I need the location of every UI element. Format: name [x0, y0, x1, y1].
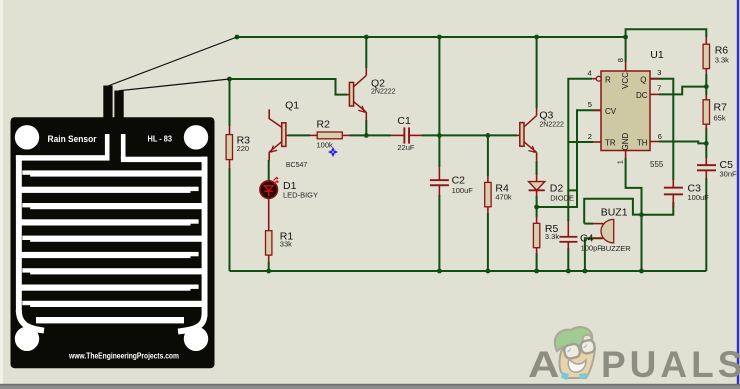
LED D1 [260, 160, 318, 199]
wire R4 drop [487, 213, 489, 271]
sensor trace pin2 lead-in [121, 134, 126, 159]
sensor bottom bar [36, 317, 184, 323]
svg-text:100uF: 100uF [688, 193, 710, 202]
sensor finger 1 [22, 170, 30, 174]
sensor corner hole top-right [184, 125, 208, 149]
wire left rail R3 top [229, 79, 231, 126]
wire top rail riser to R6 feed [626, 29, 707, 37]
svg-text:www.TheEngineeringProjects.com: www.TheEngineeringProjects.com [68, 352, 179, 361]
wire top rail [237, 36, 626, 38]
svg-text:C1: C1 [397, 115, 411, 127]
capacitor C2 [430, 167, 473, 196]
svg-text:2: 2 [588, 132, 592, 141]
wire left rail R3 bottom to ground rail [229, 168, 231, 271]
svg-text:33k: 33k [280, 240, 292, 249]
svg-text:5: 5 [588, 100, 592, 109]
resistor R7 [703, 95, 727, 129]
sensor board [11, 117, 215, 368]
wire buzzer top feed [584, 199, 641, 224]
sensor trace pin1 lead-in [105, 134, 110, 158]
wire sensor pin2 to R3 node [119, 79, 230, 91]
wire Q output to C3 [650, 79, 673, 180]
wire C2 riser [438, 37, 440, 167]
svg-text:Q1: Q1 [285, 99, 299, 111]
sensor finger 7 [22, 268, 30, 272]
svg-text:HL - 83: HL - 83 [148, 135, 173, 144]
svg-text:220: 220 [237, 144, 250, 153]
svg-text:Q3: Q3 [539, 110, 553, 122]
wire R5 to rail [536, 253, 538, 271]
svg-text:30nF: 30nF [720, 170, 738, 179]
svg-text:100uF: 100uF [452, 186, 474, 195]
sensor finger 2 [21, 187, 191, 193]
wire Q3 emitter to D2 [536, 161, 538, 175]
wire C3 bottom to GND chain [642, 202, 674, 215]
wire VCC riser [625, 37, 627, 62]
svg-text:100pF: 100pF [581, 244, 603, 253]
svg-text:LED-BIGY: LED-BIGY [283, 190, 318, 199]
sensor finger 8 [21, 285, 191, 291]
wire main row Q1 base to R2 [288, 134, 310, 136]
node sensor branch [227, 77, 232, 82]
sensor corner hole bottom-left [15, 327, 39, 351]
svg-text:TR: TR [605, 139, 616, 148]
node R4 row [486, 133, 491, 138]
diode D2 [529, 175, 574, 202]
left light edge band [0, 0, 3, 389]
sensor pin 1 [103, 86, 112, 118]
wire sensor node to Q2 base row [230, 79, 348, 95]
node C2 row [437, 133, 442, 138]
sensor trace right bus [202, 157, 208, 317]
wire main row R2 to C1 [350, 134, 392, 136]
svg-text:3.3k: 3.3k [715, 56, 729, 65]
wire R4 riser [487, 135, 489, 176]
resistor R6 [703, 37, 729, 75]
wire R pin chain down [568, 79, 592, 191]
capacitor C5 [697, 158, 737, 179]
svg-text:Q: Q [640, 76, 646, 85]
wire node to R5 [536, 207, 538, 217]
svg-text:U1: U1 [650, 49, 664, 61]
svg-text:7: 7 [657, 84, 661, 93]
node Q2 collector [364, 35, 369, 40]
wire Q3 collector riser [536, 37, 538, 108]
sensor finger 6 [21, 252, 191, 258]
node rail R4 [486, 269, 491, 274]
sensor finger 3 [22, 203, 30, 207]
transistor Q2 [347, 68, 396, 121]
watermark mascot [555, 327, 596, 380]
resistor R2 [310, 119, 350, 150]
capacitor C1 [391, 115, 422, 152]
wire ground rail [230, 270, 707, 272]
wire buzzer top pin link [584, 223, 593, 225]
svg-text:3: 3 [657, 68, 661, 77]
wire R7 bottom to node [705, 128, 707, 143]
svg-text:BC547: BC547 [286, 162, 308, 169]
svg-text:Rain Sensor: Rain Sensor [48, 134, 97, 145]
svg-text:PUALS: PUALS [601, 344, 740, 385]
sensor trace rail2 right [121, 157, 207, 162]
svg-text:8: 8 [616, 58, 625, 62]
svg-text:CV: CV [605, 107, 617, 116]
sensor left bus bottom curl [19, 310, 44, 331]
svg-text:4: 4 [588, 69, 592, 78]
wire TR pin to R chain [568, 141, 593, 143]
svg-text:DIODE: DIODE [550, 193, 574, 202]
svg-text:R7: R7 [714, 102, 728, 114]
svg-text:GND: GND [621, 133, 630, 151]
wire Q2 collector riser [365, 37, 367, 68]
node Q3 collector top [534, 35, 539, 40]
svg-text:BUZZER: BUZZER [601, 244, 632, 253]
svg-text:1: 1 [616, 160, 625, 164]
node C2 top [437, 35, 442, 40]
svg-text:22uF: 22uF [397, 143, 415, 152]
svg-text:100k: 100k [317, 140, 334, 149]
origin marker [329, 148, 338, 157]
svg-text:TH: TH [637, 139, 648, 148]
sensor finger 9 [22, 301, 30, 305]
resistor R5 [533, 216, 559, 254]
svg-text:A: A [528, 343, 560, 385]
sensor corner hole bottom-right [184, 327, 208, 351]
node rail GND chain [639, 269, 644, 274]
bottom gray window bar [0, 384, 740, 386]
buzzer BUZ1 [593, 207, 631, 253]
transistor Q1 [269, 99, 307, 169]
sensor corner hole top-left [15, 125, 39, 149]
resistor R3 [226, 126, 250, 169]
svg-text:R: R [605, 76, 611, 85]
wire DC pin to R6 R7 node [659, 87, 706, 95]
wire R6 bottom [705, 74, 707, 87]
node GND C3 buzzer [639, 212, 644, 217]
sensor trace left bus [16, 155, 22, 312]
wire sensor pin1 to top rail [108, 37, 237, 86]
wire C4 to rail [567, 248, 569, 271]
node rail C4 [566, 269, 571, 274]
wire buzzer bottom pin drop [585, 238, 603, 271]
svg-text:C2: C2 [452, 174, 466, 186]
sensor trace rail1 left [16, 155, 110, 160]
svg-text:2N2222: 2N2222 [371, 89, 396, 96]
node VCC [623, 35, 628, 40]
node R7 C5 TH [704, 141, 709, 146]
resistor R1 [266, 198, 294, 271]
node rail C2 [437, 269, 442, 274]
capacitor C3 [664, 180, 709, 207]
sensor finger 4 [21, 219, 191, 225]
wire CV chain to D2 node [537, 110, 601, 207]
wire GND chain to rail [626, 158, 642, 271]
svg-text:DC: DC [636, 91, 648, 100]
sensor right bus bottom curl [178, 314, 205, 332]
wire R chain to C4 [567, 190, 569, 221]
node rail buzzer [583, 269, 588, 274]
svg-text:3.3k: 3.3k [545, 232, 559, 241]
right blue window border [737, 0, 739, 384]
svg-text:555: 555 [650, 160, 664, 169]
sensor pin 2 [114, 91, 123, 118]
svg-text:470k: 470k [495, 193, 512, 202]
node rail R1 [266, 269, 271, 274]
wire R6 R7 node to R7 top [705, 87, 707, 95]
node Q2 emitter row [364, 133, 369, 138]
transistor Q3 [517, 108, 564, 162]
wire D2 to node [536, 196, 538, 207]
node R6 R7 DC [704, 84, 709, 89]
svg-text:65k: 65k [714, 114, 726, 123]
resistor R4 [485, 176, 512, 214]
wire C2 drop to rail [438, 195, 440, 271]
node top rail left [235, 35, 240, 40]
svg-text:2N2222: 2N2222 [539, 122, 564, 129]
svg-text:R2: R2 [317, 119, 331, 131]
wire ground rail right riser to C5 [705, 178, 707, 271]
svg-text:BUZ1: BUZ1 [601, 207, 628, 219]
svg-text:C4: C4 [580, 232, 594, 244]
wire Q2 emitter drop [365, 120, 367, 135]
svg-text:VCC: VCC [621, 72, 630, 89]
wire node to C5 [705, 143, 707, 158]
node D2 R5 CV [534, 205, 539, 210]
wire main row C1 to Q3 base [422, 134, 517, 136]
sensor finger 5 [22, 236, 30, 240]
wire TH pin to R7 C5 node [659, 142, 706, 144]
node rail R5 [534, 269, 539, 274]
svg-text:6: 6 [658, 132, 662, 141]
op-amp U1 555 timer [588, 49, 664, 169]
capacitor C4 [559, 221, 602, 253]
